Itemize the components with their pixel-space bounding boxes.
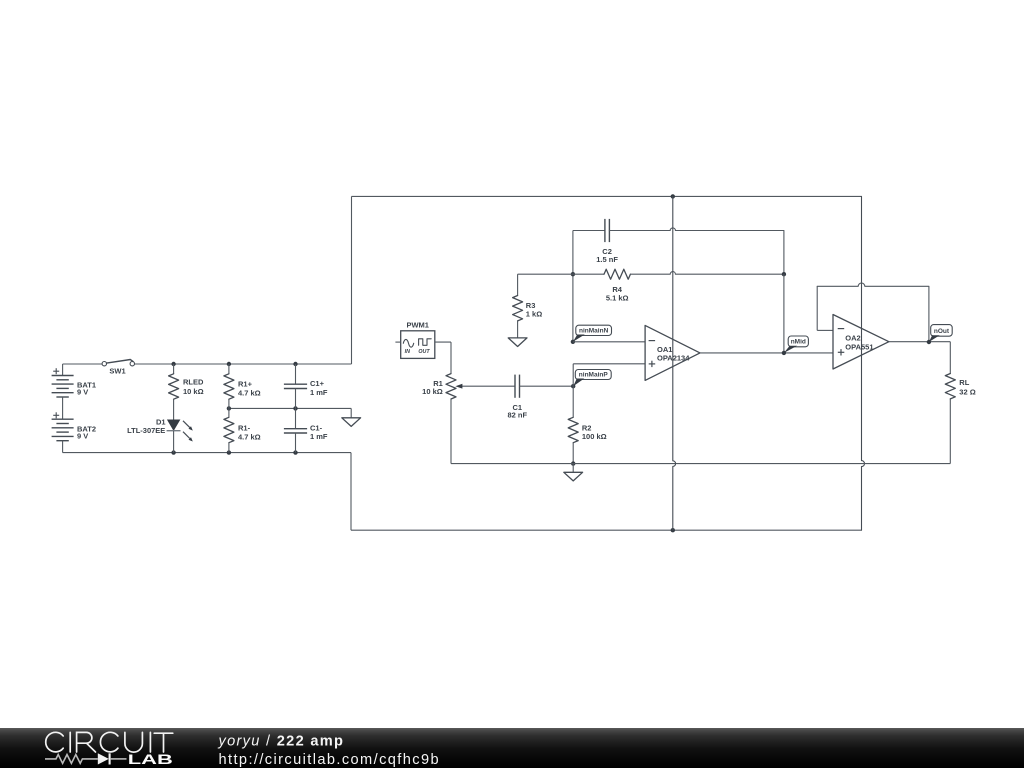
footer url [219, 752, 440, 768]
capacitor C1 82nF [508, 375, 574, 420]
wire ninMainN to OA1 minus [573, 341, 645, 343]
CircuitLab logo resistor-diode glyph [45, 753, 127, 764]
resistor RLED 10k [169, 364, 204, 420]
footer title yoryu / 222 amp [218, 733, 345, 749]
op-amp OA2 OPA551 [833, 315, 889, 370]
svg-text:10 kΩ: 10 kΩ [422, 387, 443, 396]
wire OA2 feedback loop [817, 283, 929, 342]
svg-text:OUT: OUT [418, 349, 430, 355]
wire bottom rail [63, 452, 351, 454]
node dot top rail R1+ col [227, 362, 231, 366]
wire battery top rail left [63, 363, 103, 365]
capacitor C1+ 1mF [284, 364, 328, 408]
node dot R4/C2 left [571, 272, 575, 276]
svg-text:nOut: nOut [934, 328, 950, 335]
node dot bottom rail LED col [171, 450, 175, 454]
op-amp OA1 OPA2134 [645, 196, 700, 530]
svg-text:1 mF: 1 mF [310, 432, 328, 441]
wire bottom supply rail [351, 529, 862, 531]
svg-text:R1-: R1- [238, 423, 251, 432]
capacitor C2 1.5nF [573, 219, 784, 264]
node dot top rail C1+ col [293, 362, 297, 366]
battery BAT2 9V [52, 397, 96, 453]
resistor RL 32ohm [945, 374, 975, 464]
svg-text:1.5 nF: 1.5 nF [596, 255, 618, 264]
ground below R2 [564, 464, 583, 481]
svg-text:http://circuitlab.com/cqfhc9b: http://circuitlab.com/cqfhc9b [219, 752, 440, 768]
PWM source PWM1 [395, 320, 434, 358]
wire feedback right column [783, 274, 785, 353]
node ninMainN [571, 325, 612, 344]
svg-text:ninMainP: ninMainP [579, 371, 609, 378]
node dot R2 bottom [571, 461, 575, 465]
svg-text:yoryu / 222 amp: yoryu / 222 amp [218, 733, 345, 749]
wire battery top rail right [135, 363, 352, 365]
svg-text:RLED: RLED [183, 378, 204, 387]
wire left supply edge [351, 196, 353, 364]
node ninMainP [571, 370, 611, 389]
svg-text:nMid: nMid [791, 339, 806, 346]
wire PWM1 out to R1 top [435, 342, 451, 374]
wire ninMainN column [572, 231, 574, 342]
svg-text:32 Ω: 32 Ω [959, 388, 975, 397]
wire top supply rail [352, 195, 862, 197]
svg-text:9 V: 9 V [77, 432, 88, 441]
wire ninMainP to OA1 plus [573, 364, 645, 386]
svg-text:1 mF: 1 mF [310, 388, 328, 397]
svg-text:IN: IN [405, 349, 410, 355]
svg-text:ninMainN: ninMainN [579, 327, 609, 334]
wire C2 right corner down [783, 231, 785, 275]
svg-text:SW1: SW1 [109, 367, 125, 376]
svg-text:9 V: 9 V [77, 388, 88, 397]
resistor R1- 4.7k [224, 408, 261, 452]
svg-text:1 kΩ: 1 kΩ [526, 309, 542, 318]
svg-text:10 kΩ: 10 kΩ [183, 387, 204, 396]
potentiometer R1 10k [422, 374, 515, 464]
resistor R3 1k [513, 274, 543, 338]
node nOut [927, 325, 953, 345]
node junction dot top rail / OA1 V+ [671, 194, 675, 198]
svg-text:5.1 kΩ: 5.1 kΩ [606, 294, 629, 303]
wire OA1 output [700, 352, 833, 354]
svg-text:C1+: C1+ [310, 379, 325, 388]
CircuitLab logo LAB [128, 751, 173, 767]
svg-text:82 nF: 82 nF [508, 411, 528, 420]
node dot R4 right [782, 272, 786, 276]
resistor R4 5.1k [518, 269, 784, 302]
node dot top rail LED col [171, 362, 175, 366]
svg-text:LTL-307EE: LTL-307EE [127, 426, 165, 435]
svg-text:OPA551: OPA551 [845, 342, 873, 351]
ground at mid rail [342, 408, 361, 426]
svg-text:OPA2134: OPA2134 [657, 353, 690, 362]
wire bottom-left corner drop [350, 453, 352, 531]
wire OA2 output [889, 342, 950, 374]
svg-text:R1+: R1+ [238, 379, 253, 388]
node nMid [782, 336, 809, 355]
footer bar [0, 728, 1024, 768]
node dot bottom rail R1- col [227, 450, 231, 454]
LED D1 LTL-307EE [127, 417, 193, 452]
node dot mid rail R1 col [227, 406, 231, 410]
wire mid rail [229, 407, 351, 409]
switch SW1 [102, 360, 134, 376]
svg-text:PWM1: PWM1 [406, 320, 429, 329]
resistor R1+ 4.7k [224, 364, 261, 408]
svg-text:R4: R4 [612, 285, 622, 294]
battery BAT1 9V [52, 364, 96, 397]
node junction dot bottom rail / OA1 V- [671, 528, 675, 532]
CircuitLab logo CIRCUIT [46, 732, 173, 752]
wire mid bottom [451, 463, 950, 465]
wire right supply edge (OA2 power column) [862, 196, 865, 530]
svg-text:4.7 kΩ: 4.7 kΩ [238, 389, 261, 398]
ground below R3 [508, 338, 527, 347]
svg-text:C1-: C1- [310, 423, 323, 432]
resistor R2 100k [568, 386, 606, 463]
node dot mid rail C1 col [293, 406, 297, 410]
svg-text:100 kΩ: 100 kΩ [582, 432, 607, 441]
svg-text:4.7 kΩ: 4.7 kΩ [238, 433, 261, 442]
capacitor C1- 1mF [284, 408, 328, 452]
node dot bottom rail C1- col [293, 450, 297, 454]
svg-text:RL: RL [959, 378, 969, 387]
svg-text:LAB: LAB [128, 751, 173, 767]
